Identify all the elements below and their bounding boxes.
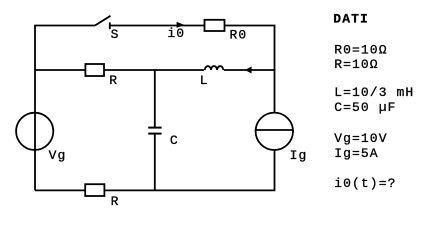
wire: top segment from left corner to switch	[34, 25, 95, 27]
voltage source Vg	[16, 113, 53, 150]
resistor R0	[205, 20, 225, 31]
svg-text:R0: R0	[230, 28, 248, 43]
wire: top segment from R0 to right corner	[225, 25, 276, 27]
wire: right vertical upper segment (top wire down to Ig)	[274, 26, 276, 113]
svg-text:i0(t)=?: i0(t)=?	[334, 176, 396, 191]
arrow on inductor branch (current direction, pointing left)	[245, 67, 252, 74]
svg-text:Ig: Ig	[290, 148, 308, 163]
wire: top segment from switch to resistor R0	[110, 25, 205, 27]
capacitor C top plate	[148, 127, 161, 129]
svg-text:DATI: DATI	[333, 12, 369, 27]
svg-text:C=50 µF: C=50 µF	[334, 100, 396, 115]
arrow i0 (current direction, top wire)	[177, 22, 185, 28]
svg-text:i0: i0	[167, 26, 185, 41]
inductor L	[205, 66, 223, 70]
wire: bottom segment from R to right corner	[104, 189, 275, 191]
svg-text:R=10Ω: R=10Ω	[334, 57, 379, 72]
wire: middle row from left vertical to resistor R	[35, 69, 85, 71]
switch S blade	[95, 16, 111, 26]
wire: capacitor branch upper segment	[154, 70, 156, 127]
svg-text:R0=10Ω: R0=10Ω	[334, 43, 387, 58]
svg-text:Vg=10V: Vg=10V	[334, 131, 387, 146]
resistor R (middle row)	[85, 64, 104, 76]
capacitor C bottom plate	[148, 133, 161, 135]
wire: capacitor branch lower segment	[154, 134, 156, 190]
svg-text:C: C	[170, 133, 179, 148]
current source Ig	[256, 113, 293, 150]
wire: middle row from R to inductor L	[104, 69, 204, 71]
resistor R (bottom)	[85, 184, 104, 196]
svg-text:Ig=5A: Ig=5A	[334, 146, 379, 161]
wire: bottom segment from left corner to resistor R	[35, 189, 85, 191]
svg-text:Vg: Vg	[49, 148, 67, 163]
wire: left vertical branch (through Vg)	[34, 26, 36, 191]
svg-text:R: R	[111, 194, 120, 209]
wire: right vertical lower segment (Ig to bottom wire)	[274, 150, 276, 191]
current source Ig bar	[256, 129, 293, 131]
svg-text:R: R	[109, 73, 118, 88]
svg-text:S: S	[111, 27, 120, 42]
svg-text:L=10/3 mH: L=10/3 mH	[334, 85, 414, 100]
svg-text:L: L	[200, 73, 209, 88]
switch S contact tick	[109, 22, 111, 29]
wire: middle row from L to right vertical	[224, 69, 275, 71]
